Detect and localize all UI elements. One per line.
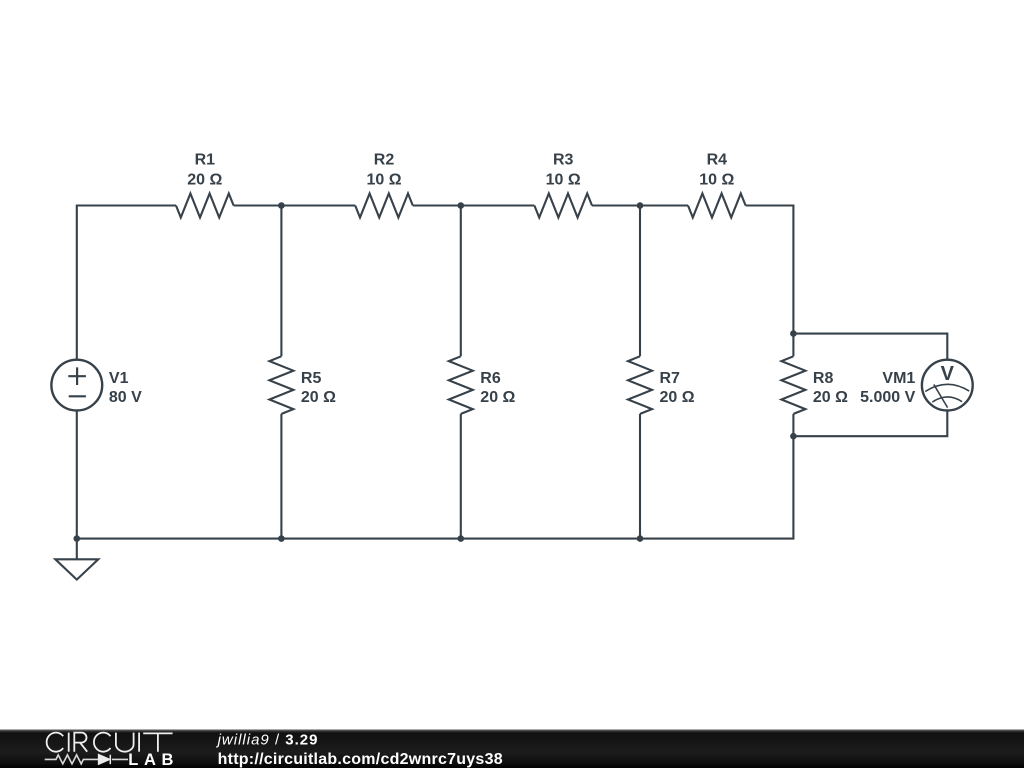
wire ground stub bbox=[76, 539, 78, 560]
svg-text:V: V bbox=[941, 363, 955, 385]
bottom bar background bbox=[0, 729, 1024, 768]
node B junction dot bbox=[458, 202, 465, 209]
wire node D down to R8 bbox=[792, 334, 794, 357]
svg-text:R2: R2 bbox=[374, 151, 395, 168]
V1 plus sign bbox=[68, 367, 86, 385]
resistor R7 bbox=[628, 356, 652, 414]
wire node A down to R5 bbox=[280, 206, 282, 357]
svg-text:20 Ω: 20 Ω bbox=[301, 389, 336, 406]
resistor R6 bbox=[449, 356, 473, 414]
wire node A to R2 bbox=[281, 204, 355, 206]
node R6 bottom junction dot bbox=[458, 535, 465, 542]
svg-text:jwillia9 / 3.29: jwillia9 / 3.29 bbox=[216, 732, 319, 749]
node R5 bottom junction dot bbox=[278, 535, 285, 542]
wire R3 to node C bbox=[592, 204, 640, 206]
voltmeter VM1 circle bbox=[922, 360, 973, 411]
wire R2 to node B bbox=[413, 204, 461, 206]
node E junction dot bbox=[790, 433, 797, 440]
wire R6 to bottom bbox=[460, 414, 462, 539]
CircuitLab logo diode symbol bbox=[99, 755, 111, 764]
svg-text:R5: R5 bbox=[301, 370, 322, 387]
voltmeter VM1 upper scale arc bbox=[925, 384, 969, 391]
resistor R1 bbox=[176, 194, 234, 218]
svg-text:R1: R1 bbox=[195, 151, 216, 168]
svg-text:80 V: 80 V bbox=[109, 389, 142, 406]
resistor R8 bbox=[781, 356, 805, 414]
svg-text:10 Ω: 10 Ω bbox=[546, 172, 581, 189]
wire V1 bottom to ground node bbox=[76, 410, 78, 538]
wire R8 to node E bbox=[792, 414, 794, 436]
svg-text:20 Ω: 20 Ω bbox=[480, 389, 515, 406]
node D junction dot bbox=[790, 330, 797, 337]
wire R5 to bottom bbox=[280, 414, 282, 539]
wire node B to R3 bbox=[461, 204, 535, 206]
svg-text:R4: R4 bbox=[707, 151, 728, 168]
ground symbol triangle bbox=[55, 559, 98, 579]
wire node C down to R7 bbox=[639, 206, 641, 357]
V1 minus sign bbox=[69, 395, 86, 397]
node A junction dot bbox=[278, 202, 285, 209]
svg-text:R7: R7 bbox=[660, 370, 681, 387]
wire node E down to bottom-right corner then left along bottom bbox=[77, 436, 794, 538]
wire R1 to node A bbox=[234, 204, 282, 206]
wire V1 top to R1 (left vertical + top-left corner) bbox=[77, 206, 176, 360]
resistor R2 bbox=[355, 194, 413, 218]
svg-text:20 Ω: 20 Ω bbox=[813, 389, 848, 406]
svg-text:R3: R3 bbox=[553, 151, 574, 168]
node R7 bottom junction dot bbox=[637, 535, 644, 542]
wire node D to voltmeter top bbox=[793, 334, 947, 361]
ground node junction dot bbox=[74, 535, 81, 542]
voltage source V1 bbox=[51, 360, 102, 411]
voltmeter VM1 needle bbox=[934, 385, 948, 408]
svg-text:R6: R6 bbox=[480, 370, 501, 387]
svg-text:10 Ω: 10 Ω bbox=[699, 172, 734, 189]
wire R7 to bottom bbox=[639, 414, 641, 539]
node C junction dot bbox=[637, 202, 644, 209]
wire node B down to R6 bbox=[460, 206, 462, 357]
resistor R4 bbox=[688, 194, 746, 218]
wire R4 to right branch corner and down to node D bbox=[746, 206, 794, 334]
resistor R5 bbox=[269, 356, 293, 414]
CircuitLab logo word CIRCUIT bbox=[47, 733, 173, 752]
svg-text:10 Ω: 10 Ω bbox=[366, 172, 401, 189]
CircuitLab logo squiggle resistor wire bbox=[45, 755, 128, 764]
resistor R3 bbox=[534, 194, 592, 218]
svg-text:VM1: VM1 bbox=[882, 370, 915, 387]
svg-text:V1: V1 bbox=[109, 370, 129, 387]
svg-text:http://circuitlab.com/cd2wnrc7: http://circuitlab.com/cd2wnrc7uys38 bbox=[218, 751, 503, 768]
wire node E to voltmeter bottom bbox=[793, 410, 947, 436]
svg-text:20 Ω: 20 Ω bbox=[187, 172, 222, 189]
voltmeter VM1 lower scale arc bbox=[932, 397, 962, 402]
svg-text:LAB: LAB bbox=[128, 751, 179, 768]
svg-text:R8: R8 bbox=[813, 370, 834, 387]
svg-text:5.000 V: 5.000 V bbox=[860, 389, 915, 406]
svg-text:20 Ω: 20 Ω bbox=[660, 389, 695, 406]
wire node C to R4 bbox=[640, 204, 688, 206]
